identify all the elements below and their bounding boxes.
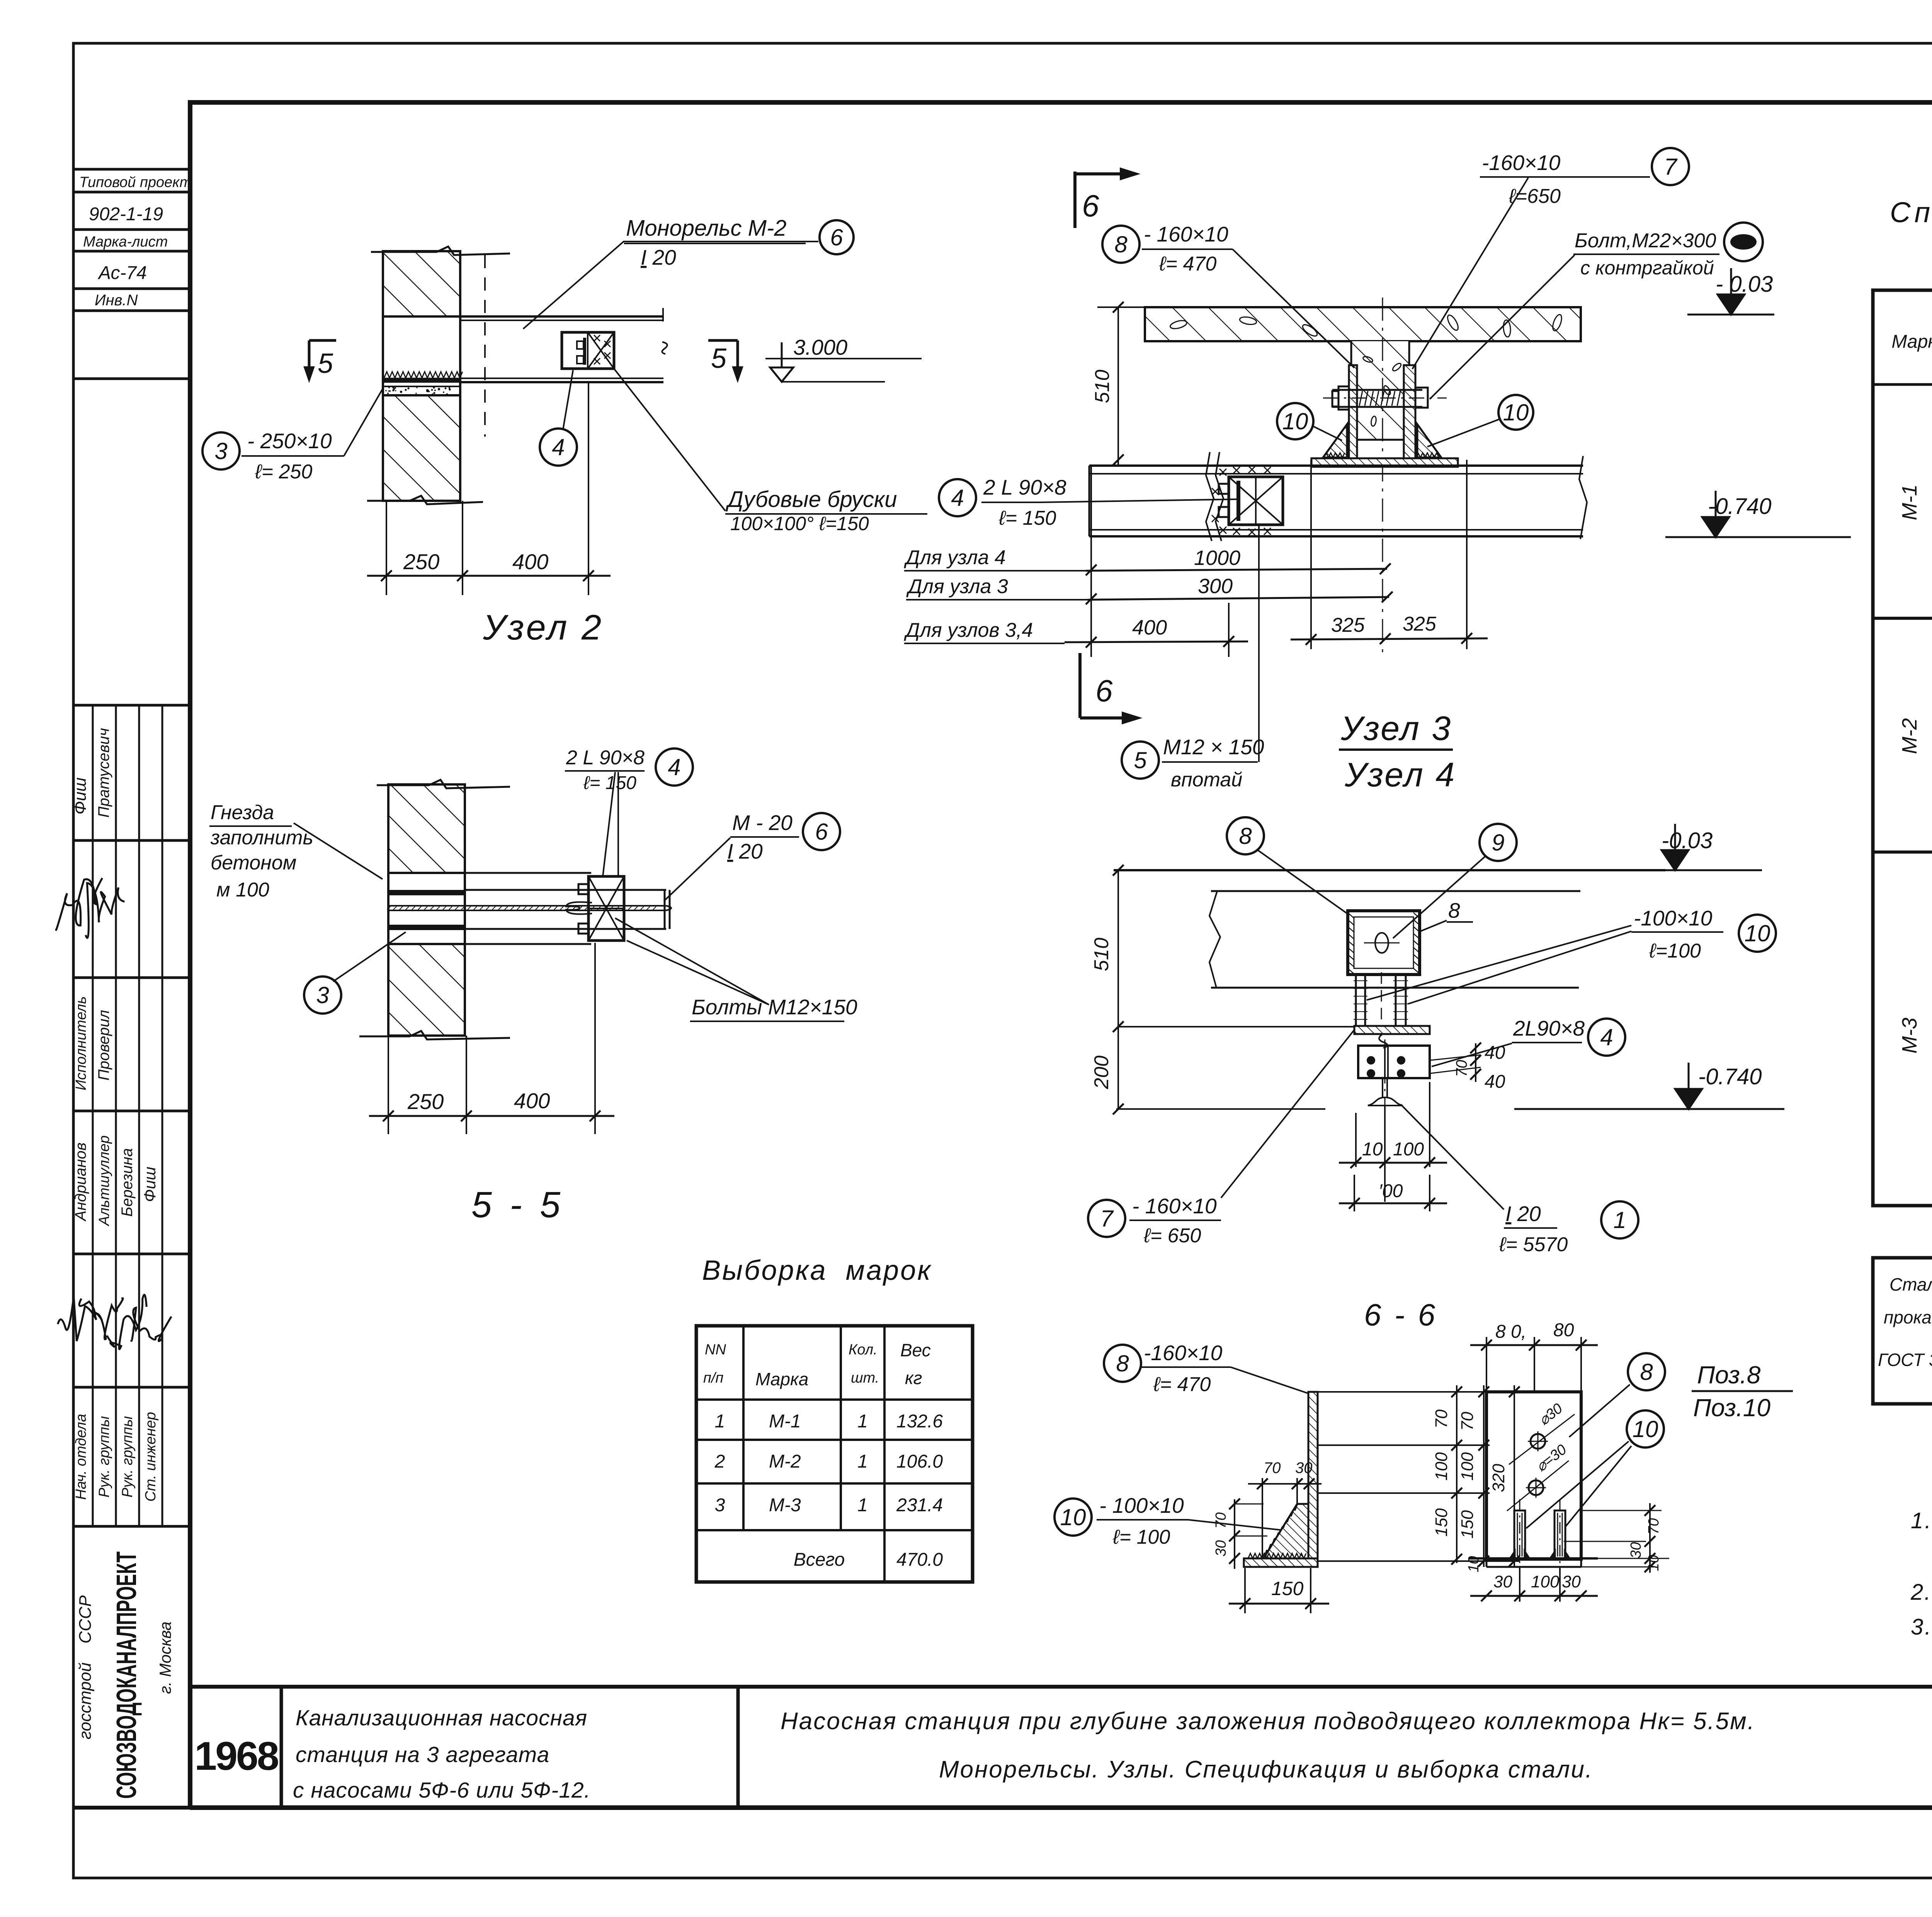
svg-text:Для узлов 3,4: Для узлов 3,4 (904, 619, 1033, 641)
svg-text:3: 3 (316, 982, 329, 1008)
svg-text:Инв.N: Инв.N (95, 292, 138, 309)
svg-text:Марка: Марка (1891, 332, 1932, 352)
d66 elevation -0.740 (1514, 1108, 1784, 1110)
uzel2 wall left edge (382, 251, 384, 501)
d55 rod clevis (566, 902, 592, 914)
svg-text:впотай: впотай (1171, 769, 1242, 791)
uzel34 elevation -0.03 (1687, 314, 1774, 316)
svg-text:бетоном: бетоном (211, 852, 296, 874)
svg-text:132.6: 132.6 (896, 1411, 943, 1432)
poz8 left view circle 8 label (1104, 1345, 1141, 1382)
svg-text:-0.740: -0.740 (1708, 494, 1771, 519)
svg-text:80: 80 (1553, 1320, 1574, 1340)
svg-text:2: 2 (714, 1451, 725, 1472)
svg-text:6: 6 (815, 819, 828, 845)
svg-text:8: 8 (1114, 231, 1128, 257)
svg-text:400: 400 (1132, 616, 1167, 639)
svg-text:4: 4 (668, 754, 680, 780)
stamp column grid (74, 168, 190, 171)
svg-text:-0.03: -0.03 (1662, 828, 1713, 853)
signature block grid (74, 704, 190, 707)
svg-text:Проверил: Проверил (95, 1010, 112, 1081)
svg-text:Для узла 4: Для узла 4 (904, 546, 1006, 569)
svg-text:Поз.10: Поз.10 (1693, 1394, 1770, 1422)
poz10 right view bars (1514, 1510, 1525, 1558)
poz10 right view base plate line (1468, 1557, 1598, 1560)
svg-text:3. Сварку производить эле: 3. Сварку производить электродами Э-42 (1911, 1614, 1932, 1640)
svg-text:NN: NN (705, 1342, 726, 1358)
uzel34 bracket x-marks (1219, 469, 1226, 476)
svg-text:Кол.: Кол. (849, 1342, 878, 1358)
svg-text:106.0: 106.0 (896, 1451, 943, 1472)
svg-text:Гнезда: Гнезда (211, 801, 274, 824)
svg-text:4: 4 (951, 485, 964, 511)
svg-text:10: 10 (1362, 1139, 1383, 1160)
svg-text:Насосная станция при глуби: Насосная станция при глубине заложения п… (781, 1708, 1755, 1735)
title block grid (190, 1685, 1932, 1689)
svg-text:Для узла 3: Для узла 3 (906, 575, 1008, 598)
poz10 left view label circle 10 (1054, 1499, 1092, 1536)
d66 plate hole (1375, 933, 1388, 953)
svg-text:10: 10 (1060, 1504, 1086, 1530)
svg-text:Рук. группы: Рук. группы (96, 1416, 112, 1498)
svg-text:Березина: Березина (119, 1148, 136, 1216)
svg-text:Спецификация стали на 1 ш: Спецификация стали на 1 штуку (1890, 196, 1932, 228)
svg-text:Поз.8: Поз.8 (1697, 1361, 1761, 1389)
d55 leader circle 3 (304, 976, 341, 1014)
svg-text:150: 150 (1458, 1510, 1477, 1539)
svg-text:325: 325 (1331, 614, 1365, 636)
svg-text:1. Совместно с данным: 1. Совместно с данным листом см. лист (1911, 1508, 1932, 1533)
d66 dim 10 100 (1355, 1113, 1357, 1167)
uzel34 lower beam lines (1089, 464, 1583, 467)
svg-text:Исполнитель: Исполнитель (73, 996, 89, 1090)
uzel2 bracket small x marks (594, 335, 600, 341)
svg-text:- 160×10: - 160×10 (1132, 1194, 1217, 1218)
svg-text:-160×10: -160×10 (1482, 151, 1561, 175)
d55 slot top line (388, 872, 591, 874)
uzel2 bolted bracket with X pattern (562, 332, 614, 369)
d66 dims 40 40 (1475, 1043, 1476, 1082)
svg-text:4: 4 (552, 434, 565, 460)
svg-text:30: 30 (1562, 1572, 1581, 1591)
d66 dim 510 200 left (1117, 870, 1119, 1109)
svg-text:2. Все неоговоренные швы: 2. Все неоговоренные швы принимать h= 6м… (1910, 1580, 1932, 1605)
svg-text:6 - 6: 6 - 6 (1364, 1298, 1437, 1332)
svg-text:7: 7 (1664, 154, 1678, 180)
svg-text:- 250×10: - 250×10 (247, 429, 332, 453)
d55 bracket with X (588, 876, 624, 941)
svg-text:Рук. группы: Рук. группы (119, 1416, 136, 1498)
svg-text:′00: ′00 (1379, 1181, 1403, 1201)
svg-text:М-1: М-1 (1898, 485, 1921, 520)
uzel2 monorail beam top flange lines (383, 315, 662, 318)
d66 vertical plates (1356, 975, 1365, 1026)
svg-text:ℓ= 470: ℓ= 470 (1153, 1373, 1211, 1396)
poz8 right view plate face (1486, 1392, 1581, 1559)
svg-text:200: 200 (1090, 1056, 1113, 1090)
svg-text:Монорельсы. Узлы. С: Монорельсы. Узлы. Спецификация и выборка… (939, 1756, 1593, 1783)
svg-text:902-1-19: 902-1-19 (89, 204, 163, 225)
svg-text:Канализационная насосная: Канализационная насосная (296, 1706, 587, 1730)
poz8 right view holes d30 (1531, 1434, 1545, 1449)
d55 gnezda leader (294, 823, 383, 879)
svg-text:470.0: 470.0 (896, 1550, 943, 1570)
svg-text:100×100° ℓ=150: 100×100° ℓ=150 (730, 513, 869, 534)
svg-text:70: 70 (1646, 1518, 1662, 1534)
svg-text:СОЮЗВОДОКАНАЛПРОЕКТ: СОЮЗВОДОКАНАЛПРОЕКТ (111, 1551, 142, 1799)
uzel2 leader circle 3 label -250x10 (202, 432, 240, 469)
svg-text:30: 30 (1295, 1459, 1313, 1476)
uzel2 section marker 5 left (309, 339, 336, 342)
svg-text:- 160×10: - 160×10 (1144, 222, 1228, 246)
uzel34 clamp plate left (1349, 365, 1357, 458)
svg-text:4: 4 (1600, 1024, 1613, 1050)
steel selection table (1873, 1258, 1932, 1404)
svg-text:I 20: I 20 (641, 245, 676, 269)
svg-text:Альтшуллер: Альтшуллер (96, 1135, 112, 1226)
svg-text:320: 320 (1489, 1464, 1508, 1492)
svg-text:п/п: п/п (703, 1370, 723, 1386)
uzel34 dim rows for uzel 3/4 (1090, 466, 1092, 657)
poz8 left view left dims 70 30 (1234, 1499, 1235, 1569)
svg-text:8: 8 (1239, 823, 1252, 849)
d55 wall vertical edges (387, 784, 389, 1036)
poz8 right view circle 8 (1628, 1353, 1665, 1390)
svg-text:10: 10 (1646, 1555, 1662, 1571)
svg-text:3: 3 (715, 1495, 725, 1516)
poz8 left view base plate (1244, 1558, 1318, 1567)
svg-text:1: 1 (715, 1411, 725, 1432)
svg-text:5: 5 (711, 343, 727, 374)
d55 lower dark band (388, 925, 465, 930)
svg-text:ℓ= 5570: ℓ= 5570 (1499, 1233, 1568, 1256)
svg-text:- 0.03: - 0.03 (1716, 272, 1773, 297)
poz8 left view dim 320 outer (1514, 1385, 1515, 1567)
d66 face plate edge hatch (1348, 913, 1354, 918)
svg-text:Сталь: Сталь (1889, 1274, 1932, 1294)
uzel2 wall hatched lower block (383, 395, 460, 501)
d66 base plate (1354, 1026, 1430, 1034)
d55 upper dark band (388, 890, 465, 895)
svg-text:Фиш: Фиш (141, 1167, 159, 1202)
svg-text:100: 100 (1458, 1452, 1477, 1481)
uzel2 speckle strip (383, 386, 460, 387)
svg-text:1: 1 (857, 1495, 868, 1516)
svg-text:г. Москва: г. Москва (156, 1621, 174, 1694)
uzel34 clamp plate right (1404, 365, 1415, 458)
uzel34 gusset left (poz10) (1323, 424, 1347, 458)
svg-text:70: 70 (1432, 1409, 1451, 1428)
svg-text:м 100: м 100 (216, 879, 269, 901)
svg-text:8 0,: 8 0, (1495, 1322, 1526, 1342)
uzel34 base plate (1311, 458, 1458, 467)
uzel34 bracket with X on beam (1229, 477, 1283, 525)
svg-text:Монорельс М-2: Монорельс М-2 (626, 216, 787, 241)
d55 wall bottom edge (359, 1031, 510, 1039)
uzel34 bolt M22 through plates (1332, 389, 1422, 391)
svg-text:кг: кг (905, 1368, 922, 1388)
svg-text:Ас-74: Ас-74 (97, 263, 147, 283)
d55 dimension 250 400 (388, 1036, 389, 1134)
svg-text:100: 100 (1393, 1139, 1424, 1160)
svg-text:231.4: 231.4 (896, 1495, 943, 1516)
svg-text:Болт,М22×300: Болт,М22×300 (1575, 230, 1716, 252)
svg-text:3: 3 (214, 438, 227, 464)
uzel34 beam break marks (1206, 452, 1214, 541)
svg-text:Марка-лист: Марка-лист (83, 234, 168, 250)
svg-text:Узел 4: Узел 4 (1344, 755, 1456, 794)
svg-text:2 L 90×8: 2 L 90×8 (566, 747, 645, 769)
svg-text:5: 5 (1134, 747, 1147, 773)
svg-text:250: 250 (407, 1089, 444, 1114)
svg-text:с контргайкой: с контргайкой (1580, 257, 1714, 279)
d66 rail profile below (1382, 1078, 1383, 1097)
svg-text:10: 10 (1282, 408, 1308, 434)
uzel2 wall top edge with break (371, 247, 510, 255)
uzel2 leader circle 4 (540, 429, 577, 466)
svg-text:1000: 1000 (1194, 546, 1240, 570)
d55 wall hatched upper (388, 784, 465, 873)
svg-text:3.000: 3.000 (793, 335, 847, 359)
svg-text:Всего: Всего (794, 1550, 845, 1570)
uzel2 beam top right end (662, 308, 664, 321)
uzel34 section marker 6 bottom (1078, 653, 1082, 718)
svg-text:Андрианов: Андрианов (72, 1143, 89, 1222)
d66 upper beam lines (1211, 890, 1580, 892)
svg-text:-0.740: -0.740 (1698, 1064, 1762, 1089)
stamp signatures row 1 (56, 878, 102, 930)
svg-text:10: 10 (1503, 400, 1529, 425)
svg-text:400: 400 (512, 549, 548, 574)
svg-text:70: 70 (1458, 1412, 1477, 1431)
d66 beam break zigzag left (1209, 891, 1220, 988)
svg-text:М-3: М-3 (1898, 1018, 1921, 1054)
svg-text:- 100×10: - 100×10 (1099, 1493, 1184, 1517)
marks selection table (696, 1326, 973, 1582)
svg-text:2 L 90×8: 2 L 90×8 (983, 475, 1066, 499)
svg-text:Болты М12×150: Болты М12×150 (692, 995, 857, 1019)
uzel2 beam bottom lines (460, 378, 663, 379)
svg-text:Вес: Вес (900, 1340, 931, 1360)
svg-text:250: 250 (403, 549, 439, 574)
svg-text:шт.: шт. (851, 1370, 879, 1386)
svg-text:70: 70 (1213, 1512, 1229, 1529)
uzel34 slab hatched (1145, 307, 1581, 341)
uzel34 beam right end break (1579, 456, 1587, 539)
svg-text:ГОСТ 380-60: ГОСТ 380-60 (1878, 1350, 1932, 1370)
svg-text:ℓ= 150: ℓ= 150 (998, 507, 1056, 529)
svg-text:М-2: М-2 (769, 1451, 801, 1472)
svg-text:1: 1 (857, 1451, 868, 1472)
uzel2 leader to Дубовые бруски (614, 369, 725, 511)
svg-text:6: 6 (1082, 189, 1099, 223)
poz8 left view dim 150 bottom (1244, 1568, 1246, 1613)
uzel2 wall bottom edge with break (367, 496, 483, 504)
svg-text:ℓ= 470: ℓ= 470 (1159, 253, 1216, 275)
svg-text:Выборка марок: Выборка марок (702, 1255, 932, 1286)
poz10 right view right dim chain (1581, 1510, 1662, 1511)
svg-text:510: 510 (1091, 370, 1114, 403)
spec table frame (1873, 290, 1932, 1206)
svg-text:30: 30 (1213, 1540, 1229, 1556)
svg-text:150: 150 (1432, 1508, 1451, 1537)
d66 leader circle 7 (1088, 1200, 1125, 1237)
svg-text:1968: 1968 (194, 1734, 278, 1779)
uzel34 dim 510 vertical (1117, 307, 1119, 466)
d55 wall top edge (377, 780, 510, 788)
uzel34 centerline (1382, 298, 1383, 657)
svg-text:70: 70 (1264, 1459, 1281, 1476)
svg-text:40: 40 (1485, 1072, 1505, 1092)
uzel2 section marker 5 right (708, 339, 738, 342)
svg-text:I 20: I 20 (1505, 1202, 1541, 1226)
svg-text:с насосами 5Ф-6 или 5Ф-12.: с насосами 5Ф-6 или 5Ф-12. (293, 1778, 591, 1803)
svg-text:ℓ=100: ℓ=100 (1649, 940, 1701, 962)
svg-text:М-2: М-2 (1898, 718, 1921, 754)
svg-text:ℓ= 250: ℓ= 250 (255, 461, 312, 483)
svg-text:Типовой проект: Типовой проект (79, 174, 192, 191)
poz8 left view extension lines (1308, 1391, 1520, 1393)
d66 leader circle 9 top (1480, 824, 1517, 861)
uzel34 rib concrete blobs (1362, 356, 1374, 363)
d66 dim 100 bottom (1354, 1175, 1355, 1211)
svg-text:Марка: Марка (755, 1369, 808, 1389)
poz8 left view dim 70 30 above gusset (1262, 1478, 1263, 1559)
svg-text:400: 400 (514, 1089, 550, 1113)
svg-text:М12 × 150: М12 × 150 (1163, 735, 1264, 759)
uzel2 dimension 250-400 (386, 501, 387, 595)
svg-text:ℓ= 100: ℓ= 100 (1112, 1526, 1170, 1548)
svg-text:100: 100 (1432, 1452, 1451, 1481)
d55 wall hatched lower (388, 944, 465, 1036)
uzel34 slab concrete blobs (1169, 319, 1187, 330)
svg-text:М-3: М-3 (769, 1495, 801, 1516)
svg-text:9: 9 (1492, 830, 1504, 856)
poz8 right view left dim chain (1456, 1385, 1458, 1563)
poz10 left view gusset (1264, 1504, 1308, 1558)
poz8 right view top dim 80 80 (1486, 1337, 1487, 1393)
svg-text:40: 40 (1485, 1043, 1505, 1063)
d66 top slab line (1114, 869, 1665, 871)
svg-text:-100×10: -100×10 (1634, 906, 1713, 930)
svg-text:госстрой СССР: госстрой СССР (76, 1595, 95, 1739)
svg-text:Фиш: Фиш (71, 777, 90, 815)
poz8 left view vertical plate (1308, 1392, 1318, 1559)
svg-text:прокатная: прокатная (1884, 1307, 1932, 1327)
uzel34 elevation -0.740 (1665, 536, 1851, 538)
d66 leaders from label 10 to plates (1367, 925, 1631, 1000)
uzel34 leader circle 10 right (1498, 395, 1533, 430)
d55 slot bottom line (388, 943, 591, 945)
poz8 left view dim chain inner (1483, 1385, 1485, 1567)
svg-text:5: 5 (318, 348, 333, 379)
d66 face plate poz8 (1348, 911, 1420, 975)
svg-text:510: 510 (1090, 938, 1113, 971)
svg-text:2L90×8: 2L90×8 (1513, 1016, 1585, 1040)
uzel2 dark band under beam (384, 378, 461, 383)
svg-text:заполнить: заполнить (210, 827, 313, 849)
svg-text:100: 100 (1531, 1572, 1560, 1591)
svg-text:30: 30 (1493, 1572, 1512, 1591)
uzel34 concrete rib below slab (1351, 341, 1409, 440)
stamp signatures row 2 (58, 1296, 102, 1341)
svg-text:1: 1 (857, 1411, 868, 1432)
svg-text:Нач. отдела: Нач. отдела (73, 1414, 89, 1500)
d55 anchor rod (388, 905, 666, 907)
svg-text:7: 7 (1100, 1206, 1114, 1232)
svg-text:М-1: М-1 (769, 1411, 801, 1432)
d66 elevation -0.03 right (1634, 869, 1762, 871)
svg-text:300: 300 (1198, 575, 1233, 598)
svg-text:ℓ= 150: ℓ= 150 (583, 773, 636, 793)
uzel34 leader circle 10 left (1277, 403, 1313, 439)
svg-text:5 - 5: 5 - 5 (471, 1184, 564, 1225)
svg-text:Узел 2: Узел 2 (483, 608, 604, 647)
svg-text:Ст. инженер: Ст. инженер (143, 1412, 159, 1502)
svg-text:10: 10 (1633, 1416, 1658, 1442)
svg-text:8: 8 (1116, 1351, 1129, 1376)
svg-text:150: 150 (1271, 1578, 1304, 1599)
svg-text:10: 10 (1745, 920, 1770, 946)
svg-text:6: 6 (830, 225, 843, 250)
uzel2 wall hatched upper block (383, 251, 460, 316)
svg-text:8: 8 (1640, 1359, 1653, 1385)
uzel34 weld teeth on gussets (1324, 453, 1345, 458)
svg-text:6: 6 (1095, 674, 1113, 708)
svg-text:8: 8 (1448, 898, 1460, 922)
d66 leader circle 8 top (1227, 817, 1264, 854)
uzel34 leader circle 7 with label -160x10 l=650 (1652, 148, 1689, 185)
poz8 right view hole leader diagonals (1509, 1414, 1575, 1465)
d66 squiggle below base (1379, 1034, 1388, 1048)
svg-text:I 20: I 20 (727, 839, 763, 863)
poz10 right view bottom dims 30 100 30 (1519, 1568, 1520, 1602)
svg-text:325: 325 (1403, 613, 1437, 635)
uzel2 wall right edge (459, 251, 461, 395)
svg-text:М - 20: М - 20 (732, 811, 793, 835)
uzel2 wall face hidden line dashed (484, 255, 486, 437)
uzel34 leader circle 5 M12x150 (1122, 742, 1159, 779)
uzel34 gusset right (poz10) (1417, 424, 1441, 458)
uzel2 leader to Монорельс М-2 label (523, 242, 818, 329)
d66 bolt bar with 4 bolts (1358, 1046, 1430, 1078)
uzel34 leader circle 4 label 2L90x8 (939, 479, 976, 516)
poz8 left view weld teeth on base (1248, 1553, 1306, 1558)
svg-text:30: 30 (1628, 1542, 1644, 1558)
poz10 right view circle 10 (1627, 1410, 1664, 1448)
svg-text:Узел 3: Узел 3 (1340, 709, 1452, 747)
svg-text:Пратусевич: Пратусевич (95, 728, 112, 818)
uzel34 section marker 6 top (1073, 172, 1077, 228)
svg-text:70: 70 (1453, 1060, 1470, 1077)
svg-text:1: 1 (1613, 1207, 1626, 1233)
svg-text:станция на 3 агрегата: станция на 3 агрегата (296, 1742, 549, 1767)
svg-text:ℓ= 650: ℓ= 650 (1143, 1225, 1201, 1247)
uzel2 oak block serrated line (384, 372, 463, 378)
poz10 left view weld teeth on gusset slope (1264, 1504, 1298, 1556)
d55 beam end vertical (664, 890, 666, 929)
svg-text:Дубовые бруски: Дубовые бруски (725, 487, 897, 512)
d55 leader 2L90x8 from above (603, 772, 615, 876)
uzel34 leader circle 8 with label -160x10 l=470 (1102, 226, 1139, 263)
svg-text:-160×10: -160×10 (1144, 1341, 1223, 1365)
